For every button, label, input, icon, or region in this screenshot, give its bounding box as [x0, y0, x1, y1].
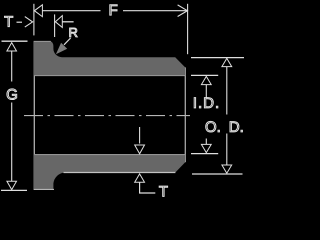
flange top edge line: [34, 40, 51, 42]
dimension F: dimension line: [42, 10, 100, 12]
dimension F: right extension line: [187, 4, 189, 54]
top wall cross-section (flange + body, with fillet R and right chamfer): [34, 41, 185, 76]
dimension O.D.: dimension line segments: [226, 67, 228, 115]
dimension I.D.: top extension line: [191, 74, 218, 76]
dimension T: right extension line: [54, 14, 56, 37]
dimension F: open arrow right: [178, 5, 188, 17]
label T (wall): [159, 186, 167, 196]
bottom wall cross-section (flange + body, with fillet and right chamfer): [34, 155, 185, 190]
body right face line (through bore): [184, 67, 186, 162]
label R: [70, 28, 78, 37]
body bottom edge line: [64, 172, 176, 174]
R filled arrowhead (gray): [56, 43, 67, 55]
dimension O.D.: hollow arrow up: [222, 58, 232, 66]
dimension G: hollow arrow down: [7, 181, 17, 189]
dimension G: hollow arrow up: [7, 43, 17, 51]
dimension O.D.: top extension line: [191, 57, 244, 59]
dimension O.D.: bottom extension line: [192, 173, 243, 175]
R leader line: [64, 38, 71, 45]
dimension I.D.: hollow arrow up: [201, 76, 211, 84]
dimension T (wall): hollow arrow up at body bottom: [135, 174, 145, 182]
label I.D.: [194, 98, 218, 108]
dimension G: dimension line: [11, 51, 13, 82]
dimension T (wall): upper arrow tail: [139, 127, 141, 144]
dimension T (wall): leader L-shape: [140, 182, 156, 193]
dimension I.D.: hollow arrow down: [201, 144, 211, 152]
dimension T: open arrow pointing right: [25, 17, 33, 28]
dimension I.D.: bottom extension line: [191, 153, 218, 155]
dimension G: extension line top: [2, 40, 28, 42]
flange bottom edge line: [34, 188, 54, 190]
flange left face line (through bore): [33, 42, 35, 190]
label T (flange): [5, 16, 13, 26]
bore top edge line: [34, 75, 185, 77]
dimension G: extension line bottom: [1, 189, 27, 191]
dimension T (flange thickness): left extension line: [33, 4, 35, 36]
label D.: [230, 122, 242, 132]
dimension T: leader dash: [17, 21, 23, 23]
label O.: [206, 121, 220, 132]
bore bottom edge line: [34, 154, 185, 156]
label G: [7, 89, 17, 100]
dimension T (wall): hollow arrow down at bore bottom: [135, 145, 145, 154]
centerline: [24, 115, 190, 117]
dimension F: hollow arrow left: [34, 5, 42, 17]
dimension T: hollow arrow pointing left with tail: [55, 16, 62, 28]
dimension I.D.: dimension line segments: [205, 84, 207, 97]
label F: [110, 5, 117, 15]
dimension O.D.: hollow arrow down: [222, 165, 232, 173]
